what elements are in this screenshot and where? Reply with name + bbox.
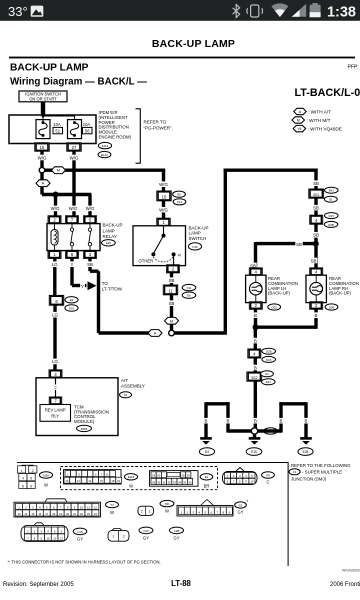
svg-text:D2B: D2B xyxy=(266,350,272,354)
wire label W/G xyxy=(158,181,168,187)
TCM pin 7 xyxy=(49,397,62,405)
connector E119 oval xyxy=(98,142,111,148)
relay pin 3 xyxy=(83,250,96,258)
svg-text:*: THIS CONNECTOR IS NOT SHOWN: *: THIS CONNECTOR IS NOT SHOWN IN HARNES… xyxy=(8,560,161,565)
ignition switch box xyxy=(19,91,67,102)
svg-text:BACK-UP LAMP: BACK-UP LAMP xyxy=(152,38,235,50)
svg-text:W/G: W/G xyxy=(38,155,47,160)
svg-text:D1: D1 xyxy=(265,372,269,376)
svg-text:D15: D15 xyxy=(266,358,272,362)
svg-text:: WITH M/T: : WITH M/T xyxy=(307,118,331,123)
relay contact 1 xyxy=(70,224,73,251)
wire B right riser xyxy=(279,402,282,432)
svg-text:26: 26 xyxy=(187,474,190,478)
svg-text:E41: E41 xyxy=(266,380,272,384)
status bar background xyxy=(0,0,360,21)
svg-text:3G1: 3G1 xyxy=(313,193,320,197)
svg-text:A: A xyxy=(42,182,45,186)
svg-text:14: 14 xyxy=(88,479,91,483)
wire label B xyxy=(303,418,310,424)
svg-text:D1: D1 xyxy=(329,198,333,202)
wire label LG xyxy=(51,312,58,318)
wire LG from relay pin 1 xyxy=(53,259,56,297)
wire SB from switch pin 2 xyxy=(170,272,173,331)
svg-text:ON OR START: ON OR START xyxy=(29,96,57,101)
svg-text:Y: Y xyxy=(81,284,84,289)
legend hexagon A with A/T xyxy=(294,108,307,114)
wire label SB xyxy=(312,205,319,211)
svg-text:B: B xyxy=(254,365,257,370)
svg-text:10: 10 xyxy=(65,479,68,483)
hexagon M marker on SB wire xyxy=(165,317,179,324)
svg-text:E15: E15 xyxy=(251,450,257,454)
back-up lamp switch box xyxy=(133,226,186,266)
relay pin 7 xyxy=(65,216,78,224)
connector D05 oval xyxy=(268,304,281,310)
wire A/T branch to relay pins xyxy=(40,187,43,195)
svg-text:2: 2 xyxy=(141,510,143,514)
svg-text:33°: 33° xyxy=(8,4,28,19)
svg-text:51: 51 xyxy=(55,129,60,134)
connector D1 oval xyxy=(261,371,274,377)
svg-text:B: B xyxy=(315,313,318,318)
svg-text:32: 32 xyxy=(168,481,171,485)
svg-text:Wiring Diagram — BACK/L —: Wiring Diagram — BACK/L — xyxy=(10,77,147,88)
wire label W/G xyxy=(69,155,79,161)
wire SB down right column xyxy=(314,169,317,191)
svg-text:10: 10 xyxy=(162,195,167,200)
svg-text:B: B xyxy=(305,419,308,424)
connector D1 oval xyxy=(324,196,337,202)
connector C15 oval xyxy=(73,528,87,535)
svg-text:15: 15 xyxy=(31,512,34,516)
wire label B xyxy=(252,418,259,424)
svg-text:BACK-UP LAMP: BACK-UP LAMP xyxy=(10,63,89,74)
svg-text:F46: F46 xyxy=(193,245,198,249)
connector E122 oval xyxy=(200,474,213,480)
wire label SB on horizontal xyxy=(295,241,302,247)
reverse lamp relay box xyxy=(40,405,71,422)
svg-text:F11: F11 xyxy=(187,286,192,290)
connector M28 oval xyxy=(39,472,52,479)
relay pin 2 xyxy=(48,216,61,224)
wire label LG xyxy=(51,261,58,267)
svg-text:D2: D2 xyxy=(239,503,243,507)
wire B from lamp RH xyxy=(314,309,317,329)
svg-text:GY: GY xyxy=(77,537,83,542)
svg-text:R: R xyxy=(178,252,181,257)
rear combination lamp RH bulb xyxy=(310,268,323,276)
wire B to splice xyxy=(254,381,257,428)
connector M4 oval xyxy=(106,501,119,507)
svg-text:36: 36 xyxy=(189,481,192,485)
svg-text:- SUPER MULTIPLE: - SUPER MULTIPLE xyxy=(302,470,342,475)
svg-text:20: 20 xyxy=(66,512,69,516)
connector D2 oval with asterisk xyxy=(235,502,247,508)
wire label SB xyxy=(168,300,175,306)
svg-text:SB: SB xyxy=(169,301,175,306)
svg-text:: WITH VQ40DE: : WITH VQ40DE xyxy=(308,127,342,132)
svg-text:19: 19 xyxy=(152,474,155,478)
wire SB riser up xyxy=(224,169,227,332)
svg-text:10: 10 xyxy=(250,480,254,484)
svg-text:(BACK-UP): (BACK-UP) xyxy=(268,291,291,296)
status bar battery icon xyxy=(310,3,321,17)
svg-text:BR: BR xyxy=(204,484,210,489)
svg-text:F14: F14 xyxy=(177,200,182,204)
inline connector 10 box xyxy=(157,191,172,201)
ground E17 oval xyxy=(199,448,214,456)
svg-text:Y: Y xyxy=(71,262,74,267)
pin label 2 inside A/T xyxy=(53,384,57,390)
connector C22 small xyxy=(108,528,129,541)
connector M6 oval xyxy=(160,500,174,506)
wire label B xyxy=(313,312,320,318)
status bar wifi icon xyxy=(271,3,288,17)
svg-text:11: 11 xyxy=(168,289,173,294)
wire SB from relay pin 3 xyxy=(88,259,91,272)
connector M4 pin grid xyxy=(14,499,101,517)
svg-text:LAMP: LAMP xyxy=(189,231,201,236)
svg-text:RLY: RLY xyxy=(51,413,59,418)
inline connector 4 box xyxy=(248,349,261,358)
hexagon A marker on SB wire xyxy=(148,330,162,337)
svg-text:19: 19 xyxy=(59,512,62,516)
legend hexagon V6 with VQ40DE xyxy=(293,125,306,131)
svg-text:Revision: September 2005: Revision: September 2005 xyxy=(3,582,74,588)
IPDM pin 15 xyxy=(35,143,50,152)
ground center xyxy=(249,438,261,444)
connector E9 oval xyxy=(65,297,78,303)
connector F11 oval xyxy=(182,284,196,290)
svg-text:35: 35 xyxy=(183,481,186,485)
svg-text:GY: GY xyxy=(238,509,244,514)
svg-text:WKIA2830E: WKIA2830E xyxy=(342,568,360,572)
svg-text:31: 31 xyxy=(163,481,166,485)
connector area separator line xyxy=(17,462,288,463)
connector F9 pin grid xyxy=(223,468,258,485)
svg-text:LT-T/TOW: LT-T/TOW xyxy=(102,287,123,292)
svg-text:C2B: C2B xyxy=(174,529,180,533)
svg-text:OTHER: OTHER xyxy=(139,259,154,264)
svg-text:56: 56 xyxy=(85,129,90,134)
svg-text:12: 12 xyxy=(94,505,98,509)
svg-text:E41: E41 xyxy=(329,189,335,193)
connector E6 oval xyxy=(173,191,186,197)
svg-text:LG: LG xyxy=(52,262,58,267)
svg-text:E4: E4 xyxy=(205,450,209,454)
svg-text:REFER TO THE FOLLOWING: REFER TO THE FOLLOWING xyxy=(291,463,351,468)
svg-text:“PG-POWER”.: “PG-POWER”. xyxy=(144,126,173,131)
svg-text:29: 29 xyxy=(152,481,155,485)
arrow to LT-T/TOW xyxy=(88,281,97,290)
relay contact 2 xyxy=(88,224,91,251)
wire B right drop to ground xyxy=(304,402,307,437)
svg-text:SB: SB xyxy=(313,206,319,211)
svg-text:22: 22 xyxy=(80,512,83,516)
svg-text:W: W xyxy=(129,484,133,489)
wire label SB xyxy=(312,232,319,238)
wire label SB xyxy=(86,261,93,267)
legend hexagon M with M/T xyxy=(292,117,305,123)
svg-text:19: 19 xyxy=(117,479,120,483)
wire W/G down to switch xyxy=(162,169,165,220)
wire label LG xyxy=(51,359,58,365)
svg-text:B: B xyxy=(254,313,257,318)
wire W/G from pin 27 down to relay xyxy=(72,151,75,217)
wire label B xyxy=(252,312,259,318)
wire ignition feed to IPDM xyxy=(41,102,45,122)
inline connector 8 box xyxy=(49,295,64,305)
svg-text:REFER TO: REFER TO xyxy=(144,120,167,125)
svg-text:1: 1 xyxy=(21,469,23,473)
SMJ M1 oval xyxy=(289,469,300,475)
svg-text:C15: C15 xyxy=(77,530,83,534)
svg-text:11: 11 xyxy=(53,536,56,540)
switch pin 2 xyxy=(166,265,179,273)
relay pin 5 xyxy=(83,216,96,224)
svg-text:D05: D05 xyxy=(272,305,278,309)
connector F2 oval xyxy=(120,392,132,398)
connector F503 oval xyxy=(77,425,92,431)
svg-text:: WITH A/T: : WITH A/T xyxy=(308,109,331,114)
svg-text:2: 2 xyxy=(123,535,125,539)
inline connector 4 box xyxy=(310,215,323,224)
svg-text:1: 1 xyxy=(112,535,114,539)
svg-text:M: M xyxy=(57,169,60,173)
svg-text:W/G: W/G xyxy=(51,206,60,211)
svg-text:JUNCTION (SMJ): JUNCTION (SMJ) xyxy=(291,476,327,481)
SMJ connector 3G1 box xyxy=(309,189,324,198)
connector E122 pin grid xyxy=(150,471,199,487)
svg-text:4: 4 xyxy=(22,477,24,481)
wire SB down to lamp RH xyxy=(314,246,317,269)
svg-text:BACK-UP: BACK-UP xyxy=(189,225,209,230)
svg-text:10: 10 xyxy=(46,536,49,540)
svg-text:11: 11 xyxy=(87,505,90,509)
svg-text:B: B xyxy=(227,419,230,424)
svg-text:21: 21 xyxy=(73,512,76,516)
svg-text:E119: E119 xyxy=(102,144,109,148)
svg-text:B: B xyxy=(205,419,208,424)
wire W/G horizontal to back-up lamp switch xyxy=(42,168,165,171)
wire Y from relay pin 6 xyxy=(70,259,73,286)
wire SB to junction xyxy=(314,224,317,242)
svg-text:TO: TO xyxy=(102,281,109,286)
status bar photo icon xyxy=(31,6,44,17)
svg-text:*: * xyxy=(247,499,249,504)
svg-text:18: 18 xyxy=(52,512,55,516)
svg-text:D15: D15 xyxy=(329,214,335,218)
splice circle xyxy=(251,428,257,434)
connector D1 small xyxy=(138,506,154,515)
fuse 10A 51 xyxy=(36,115,75,139)
wire label W/G relay right xyxy=(85,206,95,212)
svg-text:GY: GY xyxy=(174,536,180,541)
svg-text:E1: E1 xyxy=(205,475,209,479)
connector F9 oval xyxy=(262,472,275,478)
connector area divider line xyxy=(288,462,289,566)
ground B15 oval xyxy=(246,448,262,456)
wire B xyxy=(254,358,257,373)
svg-text:3G2: 3G2 xyxy=(251,376,258,380)
wire B horizontal joining lamps xyxy=(256,326,317,329)
svg-text:E122: E122 xyxy=(101,153,108,157)
wire label SB xyxy=(310,258,317,264)
svg-text:W/G: W/G xyxy=(86,206,95,211)
wire label W/G relay left xyxy=(50,206,60,212)
svg-text:12: 12 xyxy=(60,536,63,540)
connector D15 oval xyxy=(325,213,339,219)
SMJ connector 3G2 box xyxy=(247,372,262,381)
wire label B xyxy=(203,418,210,424)
svg-text:30: 30 xyxy=(157,481,160,485)
svg-text:BACK-UP: BACK-UP xyxy=(103,223,123,228)
switch pin 1 xyxy=(157,218,171,226)
svg-text:W/G: W/G xyxy=(159,208,168,213)
svg-text:27: 27 xyxy=(72,145,77,150)
wire B left riser xyxy=(226,402,229,432)
ground right xyxy=(300,438,312,444)
svg-text:D2B: D2B xyxy=(328,223,334,227)
svg-text:20: 20 xyxy=(157,474,160,478)
svg-text:F1A: F1A xyxy=(69,306,74,310)
connector E41 oval xyxy=(325,187,339,193)
node SB junction circle xyxy=(169,330,175,336)
svg-text:W/G: W/G xyxy=(159,182,168,187)
svg-text:E25: E25 xyxy=(106,241,112,245)
connector F1A oval xyxy=(65,305,78,311)
svg-text:18: 18 xyxy=(111,479,114,483)
wire label W/G relay middle xyxy=(68,206,78,212)
connector E6 oval xyxy=(182,292,196,298)
svg-text:9: 9 xyxy=(30,485,32,489)
svg-text:E6: E6 xyxy=(177,193,181,197)
hexagon M branch marker xyxy=(52,167,66,174)
wire label W/G xyxy=(37,155,47,161)
IPDM E/R name text xyxy=(99,110,132,140)
connector E41 oval xyxy=(262,379,276,385)
ground left xyxy=(200,438,212,444)
hexagon A branch marker xyxy=(36,180,50,187)
svg-text:1:38: 1:38 xyxy=(327,5,356,21)
wire LG down to A/T assembly xyxy=(53,305,56,371)
wire label B xyxy=(252,365,259,371)
inline connector 11 box xyxy=(163,285,178,295)
svg-text:SB: SB xyxy=(311,258,317,263)
svg-text:A: A xyxy=(154,332,157,336)
svg-text:E9: E9 xyxy=(70,298,74,302)
wire B down center xyxy=(254,327,257,350)
svg-text:SB: SB xyxy=(313,181,319,186)
A/T assembly pin 4 xyxy=(49,370,62,378)
svg-text:LAMP: LAMP xyxy=(103,229,115,234)
svg-text:E119: E119 xyxy=(128,475,135,479)
svg-text:E28: E28 xyxy=(303,450,309,454)
svg-text:33: 33 xyxy=(173,481,176,485)
svg-text:LG: LG xyxy=(52,313,58,318)
connector E25 oval xyxy=(102,240,116,246)
relay coil xyxy=(51,224,58,251)
connector E122 oval xyxy=(98,151,111,157)
wire SB junction to right riser xyxy=(174,331,227,334)
svg-text:SB: SB xyxy=(313,233,319,238)
wire label Y near arrow xyxy=(80,283,85,289)
svg-text:F503: F503 xyxy=(81,427,88,431)
svg-text:5: 5 xyxy=(30,477,32,481)
svg-text:14: 14 xyxy=(24,512,27,516)
svg-text:V6: V6 xyxy=(297,127,301,131)
svg-text:F2: F2 xyxy=(124,393,128,397)
svg-text:10: 10 xyxy=(80,505,84,509)
fuse number 51 box xyxy=(53,127,63,133)
wire B from lamp LH xyxy=(254,309,257,328)
svg-text:B: B xyxy=(280,419,283,424)
connector F14 oval xyxy=(173,199,186,205)
wire A/T branch down from circle xyxy=(40,173,43,180)
A/T assembly box xyxy=(36,378,118,436)
svg-text:PFP:: PFP: xyxy=(348,65,359,71)
wire label W/G xyxy=(158,207,168,213)
connector D15 oval xyxy=(262,356,276,362)
wire label B xyxy=(252,338,259,344)
wire label SB xyxy=(168,277,175,283)
svg-text:M: M xyxy=(170,319,173,323)
wire B left branch xyxy=(228,429,251,432)
wire B right top horizontal xyxy=(279,402,306,405)
svg-text:15: 15 xyxy=(40,145,45,150)
svg-text:13: 13 xyxy=(17,512,20,516)
status bar signal icon xyxy=(292,4,306,17)
svg-text:2006 Frontier: 2006 Frontier xyxy=(330,582,360,588)
svg-text:(BACK-UP): (BACK-UP) xyxy=(329,291,352,296)
connector D06 oval xyxy=(325,304,338,310)
back-up lamp relay box xyxy=(47,224,100,251)
wire SB xyxy=(314,198,317,216)
svg-text:RELAY: RELAY xyxy=(103,234,117,239)
svg-text:F9: F9 xyxy=(266,473,270,477)
svg-text:SB: SB xyxy=(169,278,175,283)
wire SB to left lamp xyxy=(256,242,316,245)
header rule xyxy=(9,57,355,59)
connector D2 pin row xyxy=(177,500,233,517)
connector D2B oval xyxy=(324,221,338,227)
svg-text:B: B xyxy=(254,338,257,343)
svg-text:LG: LG xyxy=(52,359,58,364)
svg-text:W/G: W/G xyxy=(70,155,79,160)
connector E119 pin grid xyxy=(64,470,122,484)
svg-text:SB: SB xyxy=(296,242,302,247)
IPDM E/R box xyxy=(9,115,96,144)
wire label SB xyxy=(312,180,319,186)
svg-text:ENGINE ROOM): ENGINE ROOM) xyxy=(99,135,132,140)
svg-text:LT-88: LT-88 xyxy=(171,579,191,588)
svg-text:16: 16 xyxy=(38,512,41,516)
svg-text:M28: M28 xyxy=(43,473,49,477)
junction dot lamp grounds xyxy=(253,324,259,330)
refer to PG-POWER bracket xyxy=(136,109,141,163)
svg-text:12: 12 xyxy=(77,479,80,483)
svg-text:T4: T4 xyxy=(110,503,114,507)
svg-text:1: 1 xyxy=(149,510,151,514)
svg-text:B: B xyxy=(254,419,257,424)
wire stub to relay coil pin xyxy=(54,195,57,218)
svg-text:23: 23 xyxy=(87,512,90,516)
svg-text:LT-BACK/L-01: LT-BACK/L-01 xyxy=(295,87,360,99)
connector C15 pin grid xyxy=(21,523,68,542)
connector M28 ignition switch xyxy=(18,465,37,488)
connector D2B oval xyxy=(262,348,276,354)
